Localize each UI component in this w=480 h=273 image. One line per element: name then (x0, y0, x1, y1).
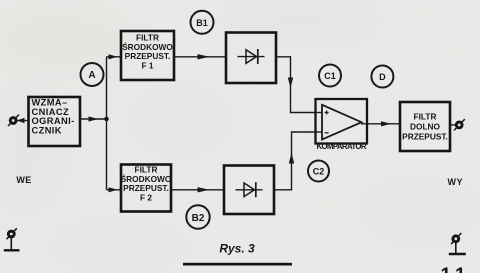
svg-text:ŚRODKOWO: ŚRODKOWO (122, 41, 173, 52)
svg-text:DOLNO: DOLNO (410, 122, 441, 132)
svg-text:Rys. 3: Rys. 3 (219, 242, 255, 256)
svg-text:11: 11 (441, 265, 471, 273)
svg-text:KOMPARATOR: KOMPARATOR (317, 142, 367, 151)
svg-text:F 1: F 1 (142, 61, 154, 71)
svg-text:B1: B1 (196, 18, 208, 28)
svg-text:PRZEPUST.: PRZEPUST. (402, 132, 448, 142)
svg-text:B2: B2 (192, 213, 205, 224)
svg-text:A: A (88, 70, 95, 81)
svg-text:WE: WE (16, 175, 31, 185)
svg-text:C1: C1 (324, 71, 336, 81)
svg-text:CZNIK: CZNIK (32, 125, 62, 135)
svg-text:FILTR: FILTR (414, 111, 437, 121)
svg-text:D: D (379, 72, 386, 82)
svg-text:F 2: F 2 (140, 193, 152, 203)
svg-text:WY: WY (448, 177, 464, 187)
svg-text:ŚRODKOWO: ŚRODKOWO (121, 173, 172, 184)
svg-text:C2: C2 (313, 167, 325, 177)
